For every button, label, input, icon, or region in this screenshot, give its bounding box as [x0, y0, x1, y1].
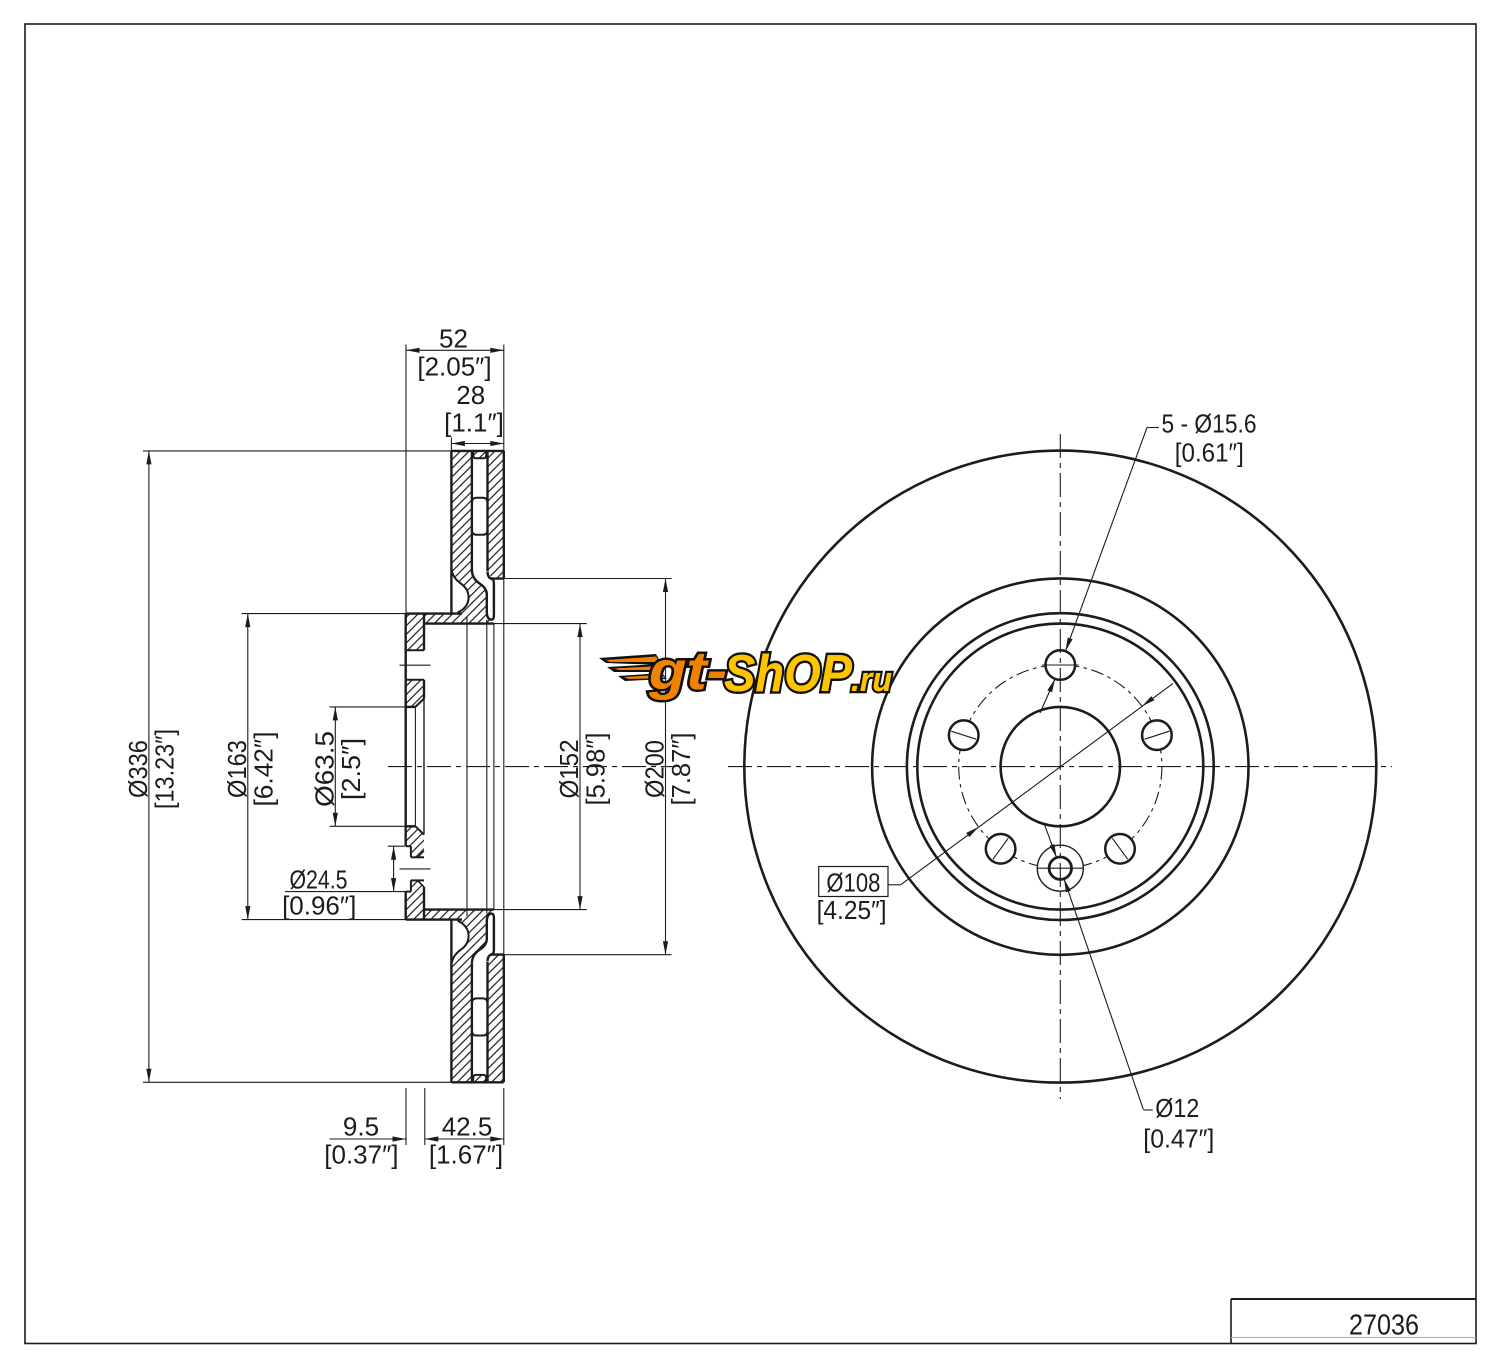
svg-text:28: 28	[456, 380, 485, 410]
svg-text:52: 52	[439, 324, 468, 354]
svg-text:.ru: .ru	[851, 661, 892, 699]
vent slot left wall	[471, 451, 473, 571]
front view horizontal centre line	[728, 766, 1392, 768]
bolt circle Ø108 (dash-dot)	[959, 665, 1162, 868]
svg-text:Ø152: Ø152	[554, 740, 584, 799]
bolt hole centre tick	[400, 664, 431, 666]
42.5 dimension (bottom)	[503, 1088, 505, 1145]
dimension Ø200	[665, 579, 667, 955]
outboard face	[503, 451, 505, 579]
inner plate left face	[450, 451, 452, 614]
wheel bolt hole Ø15.6 at 18 deg	[1142, 720, 1172, 750]
hat mounting face (upper)	[405, 614, 407, 847]
friction ring OD edge (top)	[451, 450, 503, 452]
dimension Ø336	[148, 451, 150, 1082]
flange rim step at Ø152 (upper)	[424, 622, 494, 624]
leader 5-Ø15.6	[1147, 427, 1159, 429]
vent slot + inlet channel (lower, white)	[472, 914, 494, 1075]
svg-text:9.5: 9.5	[343, 1112, 379, 1142]
svg-text:[0.47″]: [0.47″]	[1143, 1124, 1214, 1154]
Ø336 extension lines	[143, 450, 451, 452]
svg-text:Ø12: Ø12	[1155, 1093, 1199, 1123]
wheel bolt hole Ø15.6 at 234 deg	[986, 834, 1016, 864]
brake disc cross-section: hatched material upper half	[406, 451, 504, 707]
svg-text:[0.61″]: [0.61″]	[1175, 438, 1244, 468]
svg-text:Ø108: Ø108	[826, 868, 880, 898]
front view: hat flange Ø163	[907, 613, 1214, 920]
brake disc cross-section: hatched material lower half	[406, 826, 504, 1082]
title block	[1231, 1298, 1476, 1300]
leader Ø108	[819, 867, 888, 897]
svg-text:Ø63.5: Ø63.5	[309, 731, 339, 807]
svg-text:[6.42″]: [6.42″]	[248, 732, 278, 807]
vane segment in slot (upper)	[472, 498, 488, 503]
vent slot left wall (lower)	[471, 962, 473, 1082]
svg-text:[1.67″]: [1.67″]	[429, 1140, 503, 1170]
52 dimension (top)	[405, 345, 407, 614]
locating hole + counterbore (section, white)	[404, 846, 424, 891]
relief pocket left of neck (upper, white)	[451, 569, 468, 613]
bore edge (lower)	[406, 825, 416, 827]
hat mounting face (lower)	[405, 892, 407, 920]
locating hole chamfers	[418, 851, 425, 858]
svg-text:[4.25″]: [4.25″]	[817, 895, 887, 925]
locating hole edges in flange section	[411, 856, 424, 858]
front view: centre bore Ø63.5	[1001, 707, 1120, 826]
neck / vent channel boundary (upper)	[472, 571, 494, 620]
vane cut at OD (upper cap)	[473, 451, 486, 458]
svg-text:[7.87″]: [7.87″]	[666, 733, 696, 806]
Ø152 extension lines	[494, 623, 587, 625]
svg-text:[1.1″]: [1.1″]	[444, 408, 504, 438]
Ø200 extension lines	[504, 578, 672, 580]
wheel bolt hole Ø15.6 at 90 deg	[1046, 650, 1076, 680]
transition fillet S-curve (lower)	[451, 921, 468, 965]
28 dimension (top)	[450, 438, 452, 451]
background silhouette lines in hat interior	[466, 617, 468, 916]
svg-text:[2.05″]: [2.05″]	[417, 352, 491, 382]
transition fillet S-curve (upper)	[451, 569, 468, 613]
section axis centre line	[388, 766, 676, 768]
dimension Ø152	[579, 624, 581, 910]
svg-text:[0.96″]: [0.96″]	[282, 891, 356, 921]
flange back silhouette through bore	[423, 699, 425, 835]
bore edge (upper)	[406, 706, 416, 708]
svg-text:ShOP: ShOP	[724, 645, 852, 703]
bore chamfer (upper)	[415, 699, 424, 707]
vent slot right wall (lower)	[486, 962, 488, 1083]
Ø63.5 extension lines	[330, 706, 406, 708]
tangential tick top bolt hole	[1042, 664, 1079, 666]
hat flange rim at Ø163 (lower)	[406, 918, 462, 920]
front view: hat step Ø152	[917, 624, 1203, 910]
svg-text:Ø200: Ø200	[640, 740, 670, 798]
front view: friction surface inner edge Ø200	[872, 578, 1248, 954]
relief pocket left of neck (lower, white)	[451, 920, 468, 964]
flange rim step at Ø152 (lower)	[424, 908, 494, 910]
svg-text:Ø336: Ø336	[123, 740, 153, 798]
Ø24.5 dimension	[388, 845, 405, 847]
front view vertical centre line	[1059, 434, 1061, 1099]
outboard plate top face lower (Ø200)	[488, 955, 504, 962]
hat flange rim at Ø163 (upper)	[406, 612, 462, 614]
outboard plate bottom face (Ø200)	[488, 572, 504, 579]
bore chamfer silhouette	[414, 707, 416, 826]
inner plate left face (lower)	[450, 920, 452, 1083]
svg-text:gt-: gt-	[648, 641, 727, 701]
vent slot + inlet channel (upper, white)	[472, 459, 494, 620]
svg-text:42.5: 42.5	[442, 1112, 493, 1142]
vent slot right wall	[486, 451, 488, 572]
9.5 dimension (bottom)	[405, 1088, 407, 1145]
wheel bolt hole Ø15.6 at 306 deg	[1105, 834, 1135, 864]
svg-text:[5.98″]: [5.98″]	[581, 733, 611, 806]
wheel bolt hole Ø15.6 at 162 deg	[949, 720, 979, 750]
leader Ø12	[1143, 1109, 1152, 1111]
counterbore edges	[406, 845, 411, 847]
outboard face (lower)	[503, 955, 505, 1083]
friction ring OD edge (bottom)	[451, 1081, 503, 1083]
radial centre ticks of side bolt holes	[951, 731, 976, 739]
front view: outer diameter Ø336	[744, 451, 1376, 1083]
flange back face (lower)	[423, 887, 425, 920]
locating hole centre tick	[400, 868, 431, 870]
svg-text:[2.5″]: [2.5″]	[336, 738, 366, 800]
svg-text:[0.37″]: [0.37″]	[324, 1140, 398, 1170]
bolt hole through flange (section, white)	[406, 650, 424, 679]
locating hole Ø12 with Ø24.5 counterbore (270 deg)	[1037, 845, 1083, 891]
center bore gap (section, white)	[406, 699, 424, 835]
Ø163 extension lines	[242, 613, 406, 615]
dimension Ø63.5	[334, 707, 336, 826]
bolt hole edges in flange section	[406, 649, 424, 651]
gt-shop.ru watermark logo	[599, 641, 892, 703]
svg-text:5 - Ø15.6: 5 - Ø15.6	[1162, 409, 1257, 439]
dimension Ø163	[247, 614, 249, 920]
neck / vent channel boundary (lower)	[472, 914, 494, 963]
flange back face (upper)	[423, 614, 425, 651]
tangential tick locating hole	[1038, 867, 1083, 869]
svg-text:27036: 27036	[1349, 1310, 1419, 1342]
bore chamfer (lower)	[415, 826, 424, 834]
vane segment in slot (lower)	[472, 1031, 488, 1036]
vane cut at OD (lower cap)	[473, 1075, 486, 1082]
svg-text:[13.23″]: [13.23″]	[149, 729, 179, 809]
svg-text:Ø163: Ø163	[222, 740, 252, 798]
